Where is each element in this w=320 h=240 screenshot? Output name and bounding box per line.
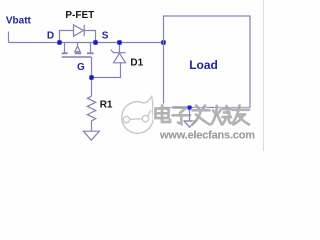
svg-text:R1: R1 bbox=[100, 99, 113, 110]
ground (below R1) bbox=[83, 131, 99, 140]
diode D1 (zener) bbox=[111, 50, 126, 63]
ground (below load) bbox=[184, 121, 196, 127]
svg-text:D1: D1 bbox=[130, 58, 143, 69]
svg-text:S: S bbox=[102, 31, 109, 42]
junction: D1 tap on rail bbox=[117, 40, 121, 44]
wire: node down to R1 bbox=[91, 78, 93, 97]
wire: load bottom to ground bbox=[189, 108, 191, 121]
wire: load bottom to ground (over watermark) bbox=[189, 108, 191, 121]
svg-text:P-FET: P-FET bbox=[65, 10, 94, 21]
wire: node to D1 anode bbox=[92, 63, 121, 78]
image right edge artifact bbox=[263, 0, 265, 151]
transistor Q1 P-FET symbol bbox=[62, 43, 94, 58]
junction: load bottom (over watermark) bbox=[188, 106, 192, 110]
junction: D node bbox=[57, 40, 61, 44]
junction: S node bbox=[93, 40, 97, 44]
ground (below load, over watermark) bbox=[184, 121, 196, 127]
svg-text:D: D bbox=[47, 31, 54, 42]
junction: load input bbox=[161, 40, 165, 44]
watermark text 电子发烧友 (hand drawn strokes) bbox=[156, 106, 250, 125]
svg-text:Load: Load bbox=[189, 58, 218, 72]
svg-text:G: G bbox=[77, 62, 85, 73]
wire: Vbatt stub bbox=[8, 32, 10, 43]
wire: rail tap down to D1 cathode bbox=[119, 43, 121, 53]
transistor Q1 body diode bbox=[60, 25, 96, 43]
junction: gate node bbox=[89, 75, 93, 79]
resistor R1 bbox=[87, 96, 95, 131]
wire: main rail from Vbatt to Load bbox=[9, 42, 164, 44]
load box bbox=[164, 16, 251, 108]
wire: gate to node bbox=[91, 57, 93, 78]
load box bottom edge (showing through watermark) bbox=[164, 107, 251, 109]
junction: load bottom bbox=[187, 105, 191, 109]
svg-text:www.elecfans.com: www.elecfans.com bbox=[159, 130, 255, 142]
svg-text:Vbatt: Vbatt bbox=[6, 16, 32, 27]
watermark logo circle bbox=[122, 96, 154, 133]
